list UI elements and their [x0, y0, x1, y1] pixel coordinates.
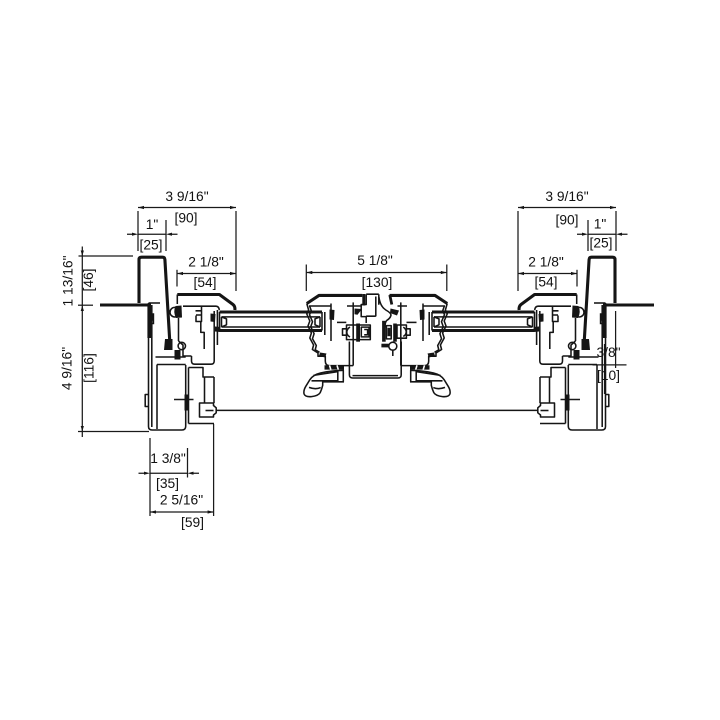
center right cap end post: [390, 295, 392, 305]
left fin upstand: [139, 257, 170, 342]
right panel gasket black top: [539, 314, 544, 323]
right frame screw head: [566, 395, 570, 411]
center right stile outer edge: [401, 304, 447, 366]
left interlock circle: [178, 342, 185, 349]
left hardware rail: [337, 321, 346, 323]
right panel step to box: [563, 341, 576, 356]
left panel cap underside: [183, 306, 219, 310]
right stile bottom wedge black: [428, 353, 436, 358]
left panel pocket lip: [216, 310, 218, 345]
svg-text:[59]: [59]: [181, 515, 204, 530]
left panel bulb seal black: [174, 306, 182, 319]
right panel bottom box: [540, 311, 563, 364]
dim line 1 3/8: [139, 472, 200, 474]
arrow: [610, 206, 616, 209]
arrow: [571, 272, 577, 275]
left frame right wall: [188, 368, 190, 424]
svg-text:2 1/8": 2 1/8": [528, 255, 564, 270]
extension line x588: [587, 220, 589, 251]
svg-text:1 3/8": 1 3/8": [150, 451, 186, 466]
dim line 2 5/16: [150, 511, 214, 513]
vertical extension x604.5: [604, 344, 606, 394]
left glass end cap right: [315, 312, 322, 331]
right frame pocket rib: [568, 356, 598, 358]
left hardware inner rect: [361, 327, 369, 337]
center left cap end post: [362, 294, 365, 306]
vertical dimension line x82: [81, 247, 83, 438]
left glass end cap left: [220, 312, 227, 331]
left roller boot inner lines: [309, 372, 338, 389]
extension line x518: [517, 211, 519, 291]
svg-text:[90]: [90]: [174, 211, 197, 226]
right roller boot inner lines: [416, 372, 445, 389]
extension line x138: [137, 211, 139, 251]
svg-text:[90]: [90]: [555, 213, 578, 228]
arrow: [150, 510, 156, 513]
left nailing fin flange: [100, 303, 151, 306]
left panel bottom box: [192, 311, 215, 364]
center right stile inner wall: [400, 302, 402, 365]
left hardware bar black: [356, 324, 360, 342]
right panel pocket lip: [536, 310, 538, 345]
left panel left edge: [176, 295, 178, 305]
left panel glazing pocket steps: [196, 306, 205, 349]
left hardware bump: [347, 327, 350, 337]
svg-text:[130]: [130]: [362, 275, 393, 290]
left panel gasket black top: [211, 314, 216, 323]
left frame wall notch: [145, 395, 148, 407]
center interlock hook: [379, 297, 391, 328]
center pivot circle: [389, 342, 397, 350]
right frame seal nub 1: [600, 313, 604, 324]
right frame seal nub 2: [602, 330, 604, 336]
left frame pocket bottom: [189, 423, 215, 425]
svg-text:[25]: [25]: [139, 238, 162, 253]
right hardware bar black 1: [382, 321, 386, 342]
center right glazing pocket: [423, 304, 429, 342]
right panel right edge: [576, 295, 578, 305]
center left stile inner zigzag: [310, 306, 320, 352]
left frame seal nub 1: [151, 313, 155, 324]
right hardware rail: [407, 321, 417, 323]
dim line 3 9/16 left: [138, 207, 236, 209]
center left gasket black: [330, 310, 335, 321]
center left stile outer edge: [307, 304, 353, 366]
svg-text:[54]: [54]: [193, 275, 216, 290]
arrow: [208, 510, 214, 513]
right fin upstand: [584, 257, 615, 342]
center left stile inner wall: [352, 302, 354, 365]
left hardware bracket stub: [343, 329, 347, 335]
dim line 5 1/8: [306, 272, 447, 274]
center pivot stem: [392, 350, 394, 356]
extension line y256: [79, 255, 134, 257]
left frame clip: [200, 403, 217, 417]
dim tick line y364.9: [593, 364, 627, 366]
svg-text:2 5/16": 2 5/16": [160, 493, 203, 508]
right panel gasket black bottom: [534, 327, 540, 333]
center box inner bottom: [353, 375, 399, 377]
svg-text:1": 1": [594, 217, 607, 232]
extension stub y305: [78, 304, 93, 306]
svg-text:[54]: [54]: [534, 275, 557, 290]
svg-text:[35]: [35]: [156, 476, 179, 491]
right panel bulb seal: [574, 307, 584, 317]
right hardware bar black 2: [393, 324, 397, 342]
right interlock black bar: [574, 350, 580, 360]
dim line 1 inch right: [577, 233, 628, 235]
center pivot bar black: [381, 344, 389, 348]
svg-text:[116]: [116]: [82, 353, 97, 383]
center bottom box: [349, 342, 401, 379]
svg-text:5 1/8": 5 1/8": [357, 253, 393, 268]
right frame screw shaft: [561, 399, 581, 401]
left glass inner lines: [222, 317, 321, 327]
right frame top edge: [594, 302, 606, 304]
center left cap underside: [309, 305, 361, 307]
left frame clip inner line: [206, 410, 214, 412]
right roller striped strip: [410, 365, 430, 369]
svg-text:1": 1": [146, 217, 159, 232]
right panel glazing pocket steps: [550, 306, 559, 349]
extension line x150: [149, 438, 151, 516]
left panel bulb seal: [170, 307, 180, 317]
arrow: [138, 206, 144, 209]
center left wedge black: [355, 309, 363, 315]
left frame inner wall: [151, 305, 153, 427]
right hardware bump: [403, 327, 406, 336]
arrow: [230, 272, 236, 275]
left frame screw shaft: [174, 399, 194, 401]
right hardware outer rect: [397, 325, 406, 338]
left frame under-panel step: [189, 368, 215, 404]
left frame inner vertical: [156, 365, 158, 430]
left frame top edge: [149, 302, 161, 304]
right hardware inner black: [387, 328, 390, 336]
left frame pocket rib: [156, 356, 186, 358]
arrow outside left: [132, 233, 138, 236]
arrow: [518, 272, 524, 275]
arrow: [177, 272, 183, 275]
right glass outer bottom: [432, 329, 535, 332]
extension line x577: [576, 270, 578, 287]
center right stile inner zigzag: [435, 306, 445, 352]
right glass end cap left: [432, 312, 439, 331]
center right gasket black: [420, 310, 425, 321]
dim line 3 9/16 right: [518, 207, 616, 209]
left panel gasket black bottom: [215, 327, 221, 333]
right glass inner lines: [434, 317, 533, 327]
right frame clip inner line: [541, 410, 549, 412]
center left glazing pocket: [325, 304, 331, 342]
dim line 2 1/8 right: [518, 273, 577, 275]
right frame pocket floor: [568, 364, 597, 366]
arrow outside left: [582, 233, 588, 236]
right frame wall notch: [606, 395, 609, 407]
center left cap: [307, 295, 363, 303]
arrow outside right: [188, 472, 194, 475]
left frame wall thick section: [147, 306, 151, 338]
right panel bulb seal black: [572, 306, 580, 319]
svg-text:3 9/16": 3 9/16": [545, 189, 588, 204]
right glass outer top: [432, 310, 535, 313]
svg-text:[25]: [25]: [589, 236, 612, 251]
left panel cap: [177, 295, 235, 311]
right frame left wall: [565, 368, 567, 424]
left interlock black bar: [175, 350, 181, 360]
svg-text:1 13/16": 1 13/16": [61, 255, 76, 306]
left fin foot black: [164, 339, 173, 350]
right panel lower right edge: [575, 318, 577, 341]
left panel step to box: [179, 341, 192, 356]
left frame screw head: [185, 395, 189, 411]
left frame seal nub 2: [150, 330, 152, 336]
left glass outer top: [220, 310, 323, 313]
extension line y431.5: [78, 431, 149, 433]
arrow: [441, 271, 447, 274]
extension line x616: [615, 211, 617, 251]
arrow outside left: [144, 472, 150, 475]
arrow: [518, 206, 524, 209]
left frame outer wall: [149, 303, 186, 430]
extension line x213.6: [213, 424, 215, 516]
arrow: [306, 271, 312, 274]
left panel lower left edge: [178, 318, 180, 341]
right interlock circle: [569, 342, 576, 349]
center right cap underside: [398, 305, 446, 307]
right frame pocket bottom: [540, 423, 566, 425]
right hardware bracket stub: [406, 329, 410, 335]
right frame under-panel step: [540, 368, 566, 404]
dim line 2 1/8 left: [177, 273, 236, 275]
vertical extension x615.6: [615, 311, 617, 368]
right glass end cap right: [528, 312, 535, 331]
right roller boot columns: [411, 370, 417, 382]
arrow down at y256: [81, 251, 84, 257]
svg-text:3/8": 3/8": [596, 345, 620, 360]
right frame wall thick section: [603, 306, 607, 338]
right panel cap underside: [535, 306, 571, 310]
svg-text:[46]: [46]: [81, 268, 96, 291]
svg-text:[10]: [10]: [597, 368, 620, 383]
right frame inner wall: [601, 305, 603, 427]
extension line x187.5: [187, 448, 189, 478]
extension line x177: [176, 270, 178, 287]
arrow outside right: [616, 233, 622, 236]
arrow: [230, 206, 236, 209]
right hardware inner rect: [386, 326, 391, 339]
extension line x306: [305, 265, 307, 292]
left glass outer bottom: [220, 329, 323, 332]
left roller boot outline: [304, 370, 344, 396]
center right cap: [390, 295, 448, 303]
extension line x447: [446, 265, 448, 292]
right panel cap: [519, 295, 577, 311]
right frame outer wall: [568, 303, 605, 430]
svg-text:4 9/16": 4 9/16": [60, 347, 75, 390]
sill long line: [216, 409, 538, 411]
svg-text:3 9/16": 3 9/16": [165, 189, 208, 204]
extension line x236: [235, 211, 237, 291]
center column: [361, 294, 379, 323]
right nailing fin flange: [603, 303, 654, 306]
left frame pocket floor: [157, 364, 186, 366]
left roller boot columns: [338, 370, 344, 382]
svg-text:2 1/8": 2 1/8": [188, 255, 224, 270]
left stile bottom wedge black: [319, 353, 327, 358]
right fin foot black: [582, 339, 591, 350]
left hardware outer rect: [347, 325, 371, 340]
extension line x166: [165, 220, 167, 251]
right frame inner vertical: [596, 365, 598, 430]
arrow up at y305.5: [81, 306, 84, 312]
right roller boot outline: [410, 370, 450, 396]
center hook wedge black: [390, 309, 399, 316]
arrow outside right: [166, 233, 172, 236]
right frame clip: [538, 403, 555, 417]
arrow down at y431.5: [81, 426, 84, 432]
dim line 1 inch left: [127, 233, 178, 235]
left roller striped strip: [325, 365, 345, 369]
